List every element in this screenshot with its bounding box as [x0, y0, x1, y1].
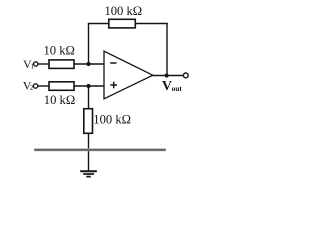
- node C junction dot (output / feedback): [165, 73, 169, 77]
- resistor Rf 100k (feedback): [109, 19, 136, 28]
- resistor R2 10k (V2 input): [49, 82, 74, 91]
- wire feedback top right horizontal: [135, 23, 167, 25]
- wire non-inverting node down to resistor Rg: [88, 86, 90, 109]
- node A junction dot (inverting input / feedback): [86, 62, 90, 66]
- op-amp non-inverting input symbol: [110, 84, 117, 86]
- wire V1 input to resistor R1: [38, 63, 49, 65]
- wire R2 to non-inverting input node: [74, 85, 104, 87]
- terminal V2: [33, 84, 37, 88]
- wire V2 input to resistor R2: [38, 85, 49, 87]
- svg-text:2: 2: [30, 84, 34, 92]
- op-amp U1: [104, 51, 153, 99]
- wire bottom bus: [34, 148, 166, 151]
- svg-text:V: V: [162, 79, 172, 94]
- wire feedback left vertical: [88, 24, 90, 65]
- wire op-amp output: [153, 75, 184, 77]
- wire resistor Rg to ground: [88, 133, 90, 171]
- op-amp inverting input symbol: [110, 62, 116, 64]
- node B junction dot (non-inverting input / Rg): [86, 84, 90, 88]
- ground: [80, 171, 97, 176]
- svg-text:10 kΩ: 10 kΩ: [43, 44, 74, 58]
- resistor R1 10k (V1 input): [49, 60, 74, 69]
- terminal V1: [34, 62, 38, 66]
- resistor Rg 100k (to ground): [84, 109, 93, 134]
- svg-text:10 kΩ: 10 kΩ: [44, 93, 75, 107]
- wire feedback top left horizontal: [88, 23, 109, 25]
- wire feedback right vertical: [166, 23, 168, 76]
- svg-text:1: 1: [31, 63, 35, 71]
- wire R1 to inverting input node: [74, 63, 104, 65]
- terminal Vout: [183, 73, 188, 78]
- svg-text:100 kΩ: 100 kΩ: [93, 113, 131, 127]
- svg-text:out: out: [172, 84, 183, 93]
- svg-text:100 kΩ: 100 kΩ: [104, 4, 142, 18]
